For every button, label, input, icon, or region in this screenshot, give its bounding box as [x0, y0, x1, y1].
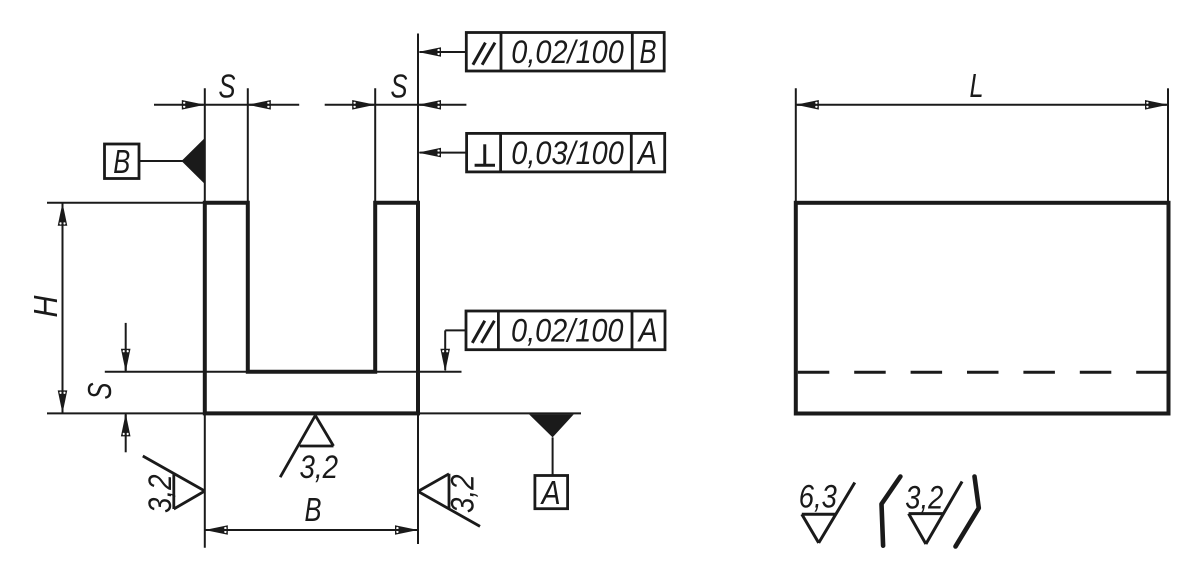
dimension L arrow left-pointing	[796, 100, 819, 110]
note closing parenthesis	[956, 477, 979, 547]
FCF3 parallelism 0,02/100 A box	[466, 311, 665, 350]
FCF1 parallelism 0,02/100 B box	[466, 33, 664, 72]
svg-text:3,2: 3,2	[905, 480, 943, 516]
FCF3 leader arrow down	[440, 349, 450, 372]
FCF3 leader vertical	[444, 330, 446, 353]
note opening parenthesis	[882, 477, 901, 546]
svg-text:6,3: 6,3	[799, 479, 837, 515]
svg-text:B: B	[305, 491, 322, 528]
dimension S bottom stem lower	[125, 413, 127, 452]
side view hidden dashed line	[798, 371, 1167, 374]
svg-text:L: L	[970, 67, 984, 104]
FCF3 leader horizontal	[445, 329, 466, 331]
dimension H arrow down	[58, 390, 68, 413]
dimension S right arrow right-pointing	[352, 100, 375, 110]
extension line top-left for H	[47, 202, 205, 204]
datum A box	[535, 476, 568, 509]
svg-text:A: A	[636, 134, 657, 171]
FCF1 leader arrow	[418, 47, 441, 57]
dimension H arrow up	[58, 203, 68, 226]
datum B box	[105, 144, 140, 179]
dimension B arrow left-pointing	[205, 525, 228, 535]
dimension S left line	[154, 104, 299, 106]
svg-text:B: B	[113, 143, 130, 180]
dimension B arrow right-pointing	[395, 525, 418, 535]
svg-text:A: A	[540, 474, 561, 511]
svg-text:0,02/100: 0,02/100	[511, 34, 624, 70]
svg-text:0,03/100: 0,03/100	[511, 135, 624, 171]
datum B leader	[139, 160, 184, 162]
dimension B line	[205, 529, 418, 531]
FCF1 leader	[437, 51, 466, 53]
dimension L line	[796, 104, 1168, 106]
datum A triangle	[529, 414, 574, 437]
side view rectangle	[796, 203, 1169, 414]
svg-text:3,2: 3,2	[300, 449, 339, 485]
extension lines S left	[204, 88, 206, 203]
dimension S right arrow left-pointing	[418, 100, 441, 110]
roughness symbol left wall 3,2	[143, 456, 205, 509]
FCF2 leader	[437, 152, 467, 154]
dimension S bottom arrow down	[121, 349, 131, 372]
note roughness 6,3 symbol	[802, 483, 855, 543]
note roughness 3,2 symbol	[909, 482, 963, 545]
dimension S right line	[325, 104, 467, 106]
extension lines B	[204, 413, 206, 547]
dimension S left arrow left-pointing	[248, 100, 271, 110]
FCF1 parallel symbol	[473, 43, 486, 65]
dimension L arrow right-pointing	[1145, 100, 1168, 110]
svg-text:S: S	[391, 67, 408, 104]
extension line S right outer (shared with FCF leaders)	[417, 34, 419, 203]
roughness symbol right wall 3,2	[418, 474, 480, 527]
extension line slot bottom	[105, 371, 462, 373]
datum A leader	[552, 437, 554, 475]
dimension S bottom stem upper	[125, 323, 127, 372]
dimension H line	[62, 203, 64, 414]
svg-text:0,02/100: 0,02/100	[511, 313, 624, 349]
FCF2 perpendicularity 0,03/100 A box	[467, 133, 665, 172]
svg-text:3,2: 3,2	[142, 475, 178, 514]
roughness symbol bottom face 3,2	[280, 415, 333, 477]
datum B triangle	[182, 138, 205, 184]
svg-text:S: S	[81, 383, 118, 400]
extension lines L	[795, 88, 797, 203]
svg-text:H: H	[27, 295, 64, 317]
svg-text:A: A	[637, 312, 658, 349]
extension line S right inner	[374, 88, 376, 203]
U-profile outline	[205, 203, 418, 414]
FCF3 parallel symbol	[472, 321, 485, 343]
FCF2 leader arrow	[418, 148, 441, 158]
svg-text:B: B	[640, 33, 657, 70]
svg-text:S: S	[219, 67, 236, 104]
svg-text:3,2: 3,2	[445, 475, 481, 514]
dimension S left arrow right-pointing	[182, 100, 205, 110]
extension line bottom for H / B / datum A	[47, 412, 581, 414]
dimension S bottom arrow up	[121, 413, 131, 436]
FCF2 perpendicular symbol	[483, 144, 486, 165]
